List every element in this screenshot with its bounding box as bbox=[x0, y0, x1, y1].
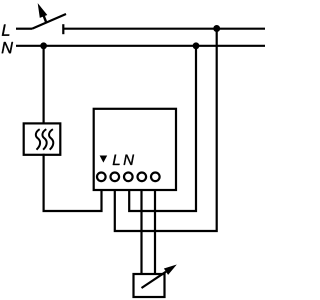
wire N drop to terminal 3 bbox=[129, 46, 196, 211]
thermostat label N bbox=[124, 155, 134, 165]
junction dot L rail bbox=[213, 25, 220, 32]
switch S1 actuator arrow bbox=[38, 3, 48, 22]
heater E1 heating squiggles bbox=[36, 129, 53, 150]
wire terminal 4 to sensor bbox=[140, 190, 142, 274]
sensor R1 adjustment arrow bbox=[142, 265, 177, 289]
junction dot N-heater bbox=[40, 42, 47, 49]
terminal 3 (N) bbox=[124, 173, 133, 182]
sensor R1 box bbox=[134, 274, 165, 297]
wire terminal 5 to sensor bbox=[154, 190, 156, 274]
wire L rail bbox=[63, 28, 265, 30]
switch S1 blade bbox=[32, 14, 66, 29]
terminal 1 bbox=[97, 173, 106, 182]
switch S1 fixed contact bbox=[62, 24, 64, 34]
node L (mains label) bbox=[2, 24, 9, 35]
wire N to heater bbox=[42, 46, 44, 125]
thermostat label L bbox=[113, 155, 120, 165]
node N (mains label) bbox=[2, 42, 13, 53]
wire N rail bbox=[16, 45, 265, 47]
thermostat U1 box bbox=[94, 109, 176, 190]
thermostat output triangle marker bbox=[100, 156, 108, 163]
wire heater bottom bbox=[44, 154, 102, 211]
junction dot N rail bbox=[193, 42, 200, 49]
wire L drop to terminal 2 bbox=[115, 29, 217, 231]
heater E1 box bbox=[24, 123, 61, 154]
terminal 2 (L) bbox=[111, 173, 120, 182]
wire L stub bbox=[16, 28, 32, 30]
terminal 5 (sensor) bbox=[151, 173, 160, 182]
terminal 4 (sensor) bbox=[138, 173, 147, 182]
